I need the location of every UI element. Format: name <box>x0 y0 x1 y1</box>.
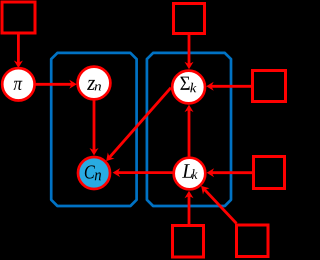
wire pi to z_n (horizontal arrow) <box>35 80 77 89</box>
wire L_k to C_n (horizontal arrow) <box>113 168 173 177</box>
node L_k (latent, white circle) <box>174 158 206 190</box>
plate N (left, contains z_n and C_n) <box>51 53 136 206</box>
hyperparameter square S5 (bottom, below L_k) <box>173 226 204 258</box>
wire Sigma_k to C_n (diagonal arrow) <box>106 88 171 161</box>
hyperparameter square S1 (top-left) <box>2 2 35 33</box>
node z_n (latent, white circle) <box>78 67 111 100</box>
hyperparameter square S2 (top-middle, above Sigma_k) <box>174 4 205 34</box>
wire S6 to L_k (diagonal arrow) <box>201 186 236 224</box>
wire S4 to L_k (horizontal arrow) <box>207 168 252 177</box>
wire z_n to C_n (vertical arrow) <box>90 101 99 156</box>
wire S5 to L_k (vertical arrow) <box>185 191 194 225</box>
wire S3 to Sigma_k (horizontal arrow) <box>206 82 251 91</box>
wire L_k to Sigma_k (vertical arrow) <box>185 105 194 157</box>
hyperparameter square S6 (bottom-right, feeds L_k diagonally) <box>237 225 269 257</box>
node pi (latent, white circle) <box>2 68 34 100</box>
node C_n (observed, cyan circle) <box>78 157 110 189</box>
wire S2 to Sigma_k (vertical arrow) <box>185 35 194 69</box>
hyperparameter square S3 (right-upper, feeds Sigma_k) <box>253 71 286 102</box>
node Sigma_k (latent, white circle) <box>172 71 205 104</box>
hyperparameter square S4 (right-lower, feeds L_k) <box>254 157 285 189</box>
wire S1 to pi (vertical arrow) <box>14 35 23 69</box>
plate K (right, contains Sigma_k and L_k) <box>147 53 231 206</box>
